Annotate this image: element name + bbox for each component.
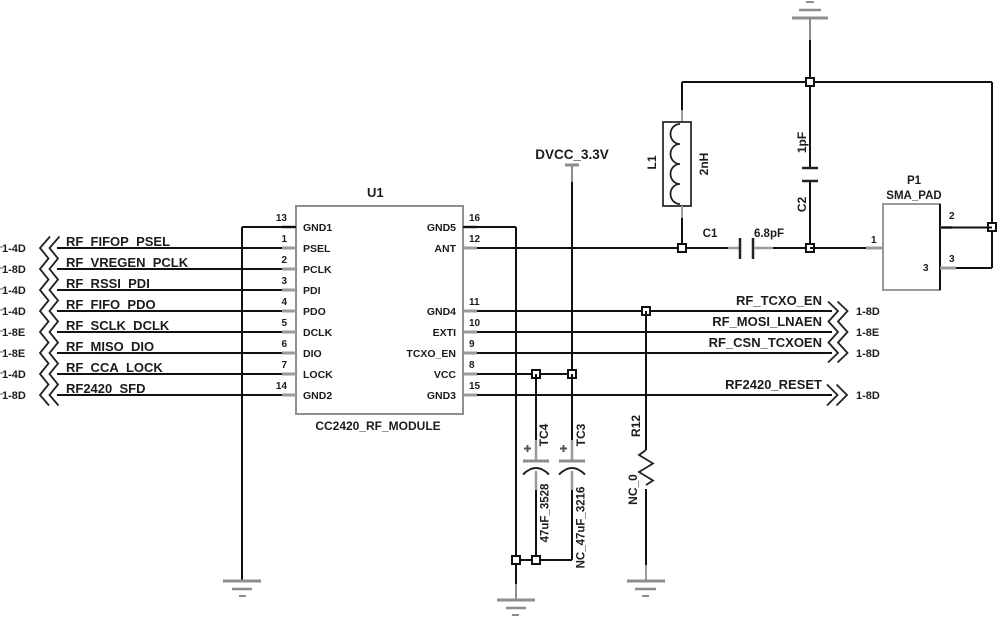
svg-text:ANT: ANT <box>434 243 456 255</box>
svg-text:16: 16 <box>469 213 481 224</box>
svg-text:1-8E: 1-8E <box>2 327 25 339</box>
svg-text:3: 3 <box>949 254 955 265</box>
svg-text:VCC: VCC <box>434 369 457 381</box>
ground (under R12) <box>627 581 665 596</box>
off-page connector chain left (chevrons) <box>40 237 60 406</box>
svg-text:LOCK: LOCK <box>303 369 333 381</box>
svg-text:3: 3 <box>281 276 287 287</box>
svg-text:DIO: DIO <box>303 348 322 360</box>
junction VCC/TC4 <box>532 370 540 378</box>
svg-text:C1: C1 <box>703 228 718 240</box>
svg-text:7: 7 <box>281 360 287 371</box>
svg-text:GND3: GND3 <box>427 390 456 402</box>
svg-text:EXTI: EXTI <box>433 327 456 339</box>
svg-text:NC_47uF_3216: NC_47uF_3216 <box>576 487 588 569</box>
pin 2 stub <box>940 226 952 229</box>
svg-text:1-4D: 1-4D <box>2 285 26 297</box>
svg-text:2: 2 <box>949 211 955 222</box>
svg-text:NC_0: NC_0 <box>626 474 640 505</box>
svg-text:3: 3 <box>923 263 929 274</box>
svg-text:1-4D: 1-4D <box>2 306 26 318</box>
inductor L1 <box>645 122 711 206</box>
capacitor C2 <box>795 82 818 248</box>
capacitor TC4 <box>523 374 552 560</box>
wire GND5 vertical gray tail <box>515 584 517 600</box>
junction VCC/TC3/DVCC <box>568 370 576 378</box>
wire GND4 / RF_TCXO_EN <box>477 310 832 312</box>
junction ANT/L1/C1 <box>678 244 686 252</box>
capacitor C1 <box>682 228 810 259</box>
wire top-left corner down to L1 <box>681 82 683 110</box>
svg-text:TC4: TC4 <box>537 423 551 446</box>
svg-text:2: 2 <box>281 255 287 266</box>
svg-text:DVCC_3.3V: DVCC_3.3V <box>535 147 609 162</box>
svg-text:PDI: PDI <box>303 285 321 297</box>
svg-text:1-4D: 1-4D <box>2 369 26 381</box>
junction C1/C2/P1 <box>806 244 814 252</box>
svg-text:6: 6 <box>281 339 287 350</box>
svg-text:RF_TCXO_EN: RF_TCXO_EN <box>736 293 822 308</box>
wire edge ticks (cropped at left border) <box>0 247 3 394</box>
junction right edge pin2 <box>988 223 996 231</box>
svg-text:PDO: PDO <box>303 306 326 318</box>
ground (bottom center) <box>497 600 535 615</box>
svg-text:13: 13 <box>276 213 288 224</box>
wire RF_SCLK_DCLK <box>57 331 282 333</box>
svg-text:TCXO_EN: TCXO_EN <box>406 348 456 360</box>
wire P1 pin1 <box>810 247 866 249</box>
wire L1 bottom lead <box>681 206 683 218</box>
svg-text:15: 15 <box>469 381 481 392</box>
svg-text:L1: L1 <box>645 155 659 169</box>
svg-text:PCLK: PCLK <box>303 264 332 276</box>
wire GND1 pin13 horizontal <box>242 226 296 228</box>
svg-text:SMA_PAD: SMA_PAD <box>886 190 941 202</box>
junction GND4/R12 <box>642 307 650 315</box>
U1 left pin stubs <box>282 227 296 395</box>
svg-text:1-8E: 1-8E <box>2 348 25 360</box>
wire top horizontal <box>682 81 992 83</box>
wire P1 pin2 <box>940 227 992 229</box>
wire DVCC vertical <box>571 182 573 374</box>
svg-text:1-8D: 1-8D <box>2 264 26 276</box>
svg-text:RF_FIFOP_PSEL: RF_FIFOP_PSEL <box>66 234 170 249</box>
ground (top right, inverted) <box>792 2 828 40</box>
wire RF_RSSI_PDI <box>57 289 282 291</box>
off-page connector RF2420_RESET (chevron) <box>827 385 847 406</box>
wire GND5 pin16 horizontal <box>463 226 516 228</box>
wire VCC pin8 <box>477 373 572 375</box>
svg-text:PSEL: PSEL <box>303 243 331 255</box>
svg-text:8: 8 <box>469 360 475 371</box>
svg-text:1: 1 <box>281 234 287 245</box>
svg-text:GND4: GND4 <box>427 306 456 318</box>
svg-text:1-8D: 1-8D <box>2 390 26 402</box>
svg-text:RF_SCLK_DCLK: RF_SCLK_DCLK <box>66 318 170 333</box>
svg-text:RF_VREGEN_PCLK: RF_VREGEN_PCLK <box>66 255 189 270</box>
U1 right pin stubs <box>463 227 477 395</box>
svg-text:1pF: 1pF <box>795 132 809 153</box>
svg-text:CC2420_RF_MODULE: CC2420_RF_MODULE <box>315 419 440 433</box>
wire TCXO_EN / RF_CSN_TCXOEN <box>477 352 832 354</box>
svg-text:C2: C2 <box>795 197 809 213</box>
svg-text:RF_CCA_LOCK: RF_CCA_LOCK <box>66 360 163 375</box>
svg-text:1-8E: 1-8E <box>856 327 879 339</box>
wire GND1 vertical to ground <box>241 227 243 581</box>
wire RF_FIFO_PDO <box>57 310 282 312</box>
resistor R12 <box>626 311 653 581</box>
wire EXTI / RF_MOSI_LNAEN <box>477 331 832 333</box>
svg-text:14: 14 <box>276 381 288 392</box>
svg-text:RF2420_RESET: RF2420_RESET <box>725 377 822 392</box>
connector P1 SMA_PAD <box>866 175 956 290</box>
capacitor TC3 <box>559 374 588 568</box>
svg-text:47uF_3528: 47uF_3528 <box>540 483 552 542</box>
svg-text:1-8D: 1-8D <box>856 348 880 360</box>
wire GND3 / RF2420_RESET <box>477 394 832 396</box>
wire RF_MISO_DIO <box>57 352 282 354</box>
wire RF2420_SFD <box>57 394 282 396</box>
svg-text:GND2: GND2 <box>303 390 332 402</box>
op-amp U1 CC2420_RF_MODULE body <box>296 185 463 433</box>
svg-text:5: 5 <box>281 318 287 329</box>
svg-text:11: 11 <box>469 297 480 308</box>
svg-text:U1: U1 <box>367 185 384 200</box>
svg-text:1: 1 <box>871 235 877 246</box>
svg-text:GND5: GND5 <box>427 222 456 234</box>
wire top-right corner down to P1 pin2 <box>991 82 993 268</box>
svg-text:2nH: 2nH <box>697 153 711 176</box>
svg-text:10: 10 <box>469 318 481 329</box>
wire RF_VREGEN_PCLK <box>57 268 282 270</box>
svg-text:1-8D: 1-8D <box>856 390 880 402</box>
svg-text:R12: R12 <box>629 415 643 437</box>
svg-text:6.8pF: 6.8pF <box>754 228 784 240</box>
svg-text:1-4D: 1-4D <box>2 243 26 255</box>
junction top <box>806 78 814 86</box>
power DVCC_3.3V <box>535 147 609 182</box>
off-page connector chain right (chevrons) <box>828 302 848 363</box>
svg-text:RF_CSN_TCXOEN: RF_CSN_TCXOEN <box>709 335 822 350</box>
svg-text:RF_RSSI_PDI: RF_RSSI_PDI <box>66 276 150 291</box>
svg-text:1-8D: 1-8D <box>856 306 880 318</box>
wire ANT pin12 <box>477 247 682 249</box>
wire top ground stem <box>809 40 811 82</box>
ground (bottom left) <box>223 581 261 596</box>
junction TC4 bottom <box>532 556 540 564</box>
wire RF_CCA_LOCK <box>57 373 282 375</box>
svg-text:9: 9 <box>469 339 475 350</box>
svg-text:P1: P1 <box>907 175 922 187</box>
svg-text:RF_MOSI_LNAEN: RF_MOSI_LNAEN <box>712 314 822 329</box>
wire P1 pin3 <box>956 267 992 269</box>
junction GND bus left <box>512 556 520 564</box>
pin 1 stub <box>866 247 883 250</box>
svg-text:4: 4 <box>281 297 287 308</box>
svg-text:RF2420_SFD: RF2420_SFD <box>66 381 145 396</box>
svg-text:DCLK: DCLK <box>303 327 333 339</box>
pin 3 stub <box>940 267 956 270</box>
wire GND5 vertical <box>515 227 517 584</box>
svg-text:TC3: TC3 <box>574 423 588 446</box>
wire RF_FIFOP_PSEL <box>57 247 282 249</box>
svg-text:RF_MISO_DIO: RF_MISO_DIO <box>66 339 154 354</box>
svg-text:12: 12 <box>469 234 481 245</box>
svg-text:GND1: GND1 <box>303 222 332 234</box>
wire TC4/TC3 ground bus <box>516 559 572 561</box>
svg-text:RF_FIFO_PDO: RF_FIFO_PDO <box>66 297 156 312</box>
